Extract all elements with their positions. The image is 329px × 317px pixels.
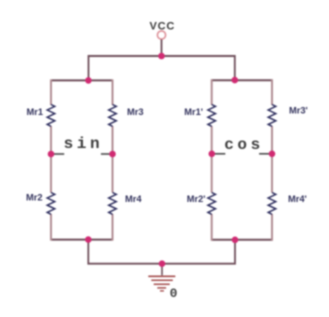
wire cos right stub: [259, 153, 270, 155]
wire left bridge left branch: [50, 79, 52, 240]
svg-text:Mr2: Mr2: [26, 193, 43, 203]
resistor Mr2: [26, 193, 55, 215]
junction at VCC rail: [158, 53, 165, 60]
wire left VCC drop: [88, 55, 90, 80]
svg-text:Mr4: Mr4: [125, 194, 142, 204]
wire left bridge right branch: [112, 79, 114, 240]
junction left bridge top: [85, 77, 92, 84]
wire VCC stem: [161, 40, 163, 57]
resistor Mr3': [268, 105, 308, 127]
resistor Mr1: [26, 105, 54, 127]
svg-text:sin: sin: [64, 135, 104, 153]
wire left bridge bottom rail: [51, 239, 113, 241]
junction right bridge bottom: [232, 237, 239, 244]
resistor Mr1': [184, 105, 215, 127]
junction ground: [159, 260, 166, 267]
svg-text:Mr4': Mr4': [288, 194, 307, 204]
node sin+: [109, 151, 116, 158]
wire right bridge left branch: [211, 79, 213, 241]
wire right VCC drop: [234, 55, 236, 80]
junction right bridge top: [232, 77, 239, 84]
node cos-: [209, 151, 216, 158]
resistor Mr4': [268, 193, 307, 215]
svg-text:Mr3': Mr3': [289, 106, 308, 116]
wire cos left stub: [214, 153, 225, 155]
ground: [148, 264, 177, 301]
junction left bridge bottom: [85, 236, 92, 243]
svg-text:Mr3: Mr3: [127, 107, 144, 117]
wire left bridge bottom drop: [88, 240, 162, 264]
svg-text:Mr1: Mr1: [26, 107, 43, 117]
svg-text:0: 0: [170, 286, 178, 301]
wire right bridge bottom drop: [162, 240, 235, 264]
resistor Mr2': [187, 193, 216, 215]
wire right bridge top rail: [212, 79, 272, 81]
wire right bridge right branch: [271, 79, 273, 241]
wire right bridge bottom rail: [212, 239, 272, 241]
resistor Mr4: [109, 193, 143, 215]
power symbol VCC: [149, 21, 175, 39]
node sin-: [48, 151, 55, 158]
wire top rail: [89, 55, 235, 57]
svg-text:Mr2': Mr2': [187, 194, 206, 204]
resistor Mr3: [109, 105, 144, 127]
svg-text:cos: cos: [224, 136, 264, 154]
node cos+: [269, 151, 276, 158]
wire left bridge top rail: [51, 79, 113, 81]
svg-text:Mr1': Mr1': [184, 107, 203, 117]
wire sin left stub: [53, 153, 64, 155]
wire sin right stub: [101, 153, 111, 155]
